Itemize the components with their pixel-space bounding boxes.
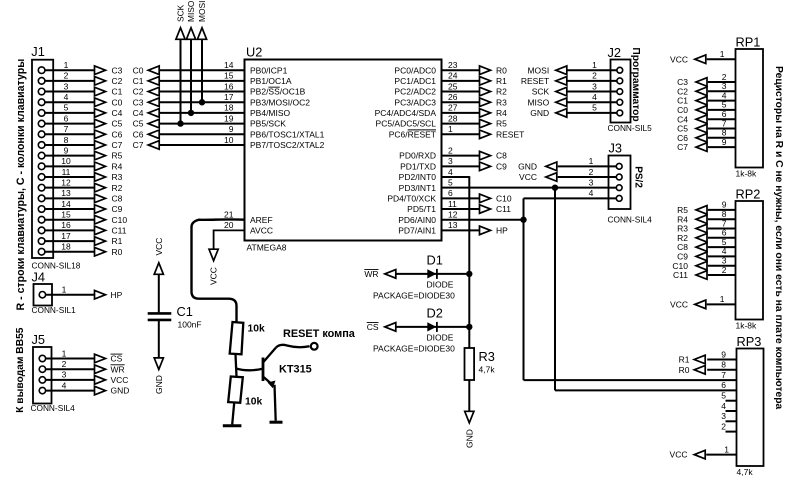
svg-text:C11: C11 — [673, 270, 688, 280]
port C2 (to U2) — [133, 87, 160, 97]
svg-text:7: 7 — [64, 124, 69, 134]
svg-text:C1: C1 — [133, 76, 144, 86]
power VCC (RP3 pin 1) — [670, 450, 706, 460]
svg-text:25: 25 — [448, 81, 458, 91]
wire U2 left row C3 — [159, 101, 244, 103]
J5 pin 2 — [39, 359, 94, 372]
port C10 (J1 pin 15) — [95, 215, 128, 225]
J2 pin 2 — [567, 71, 623, 84]
port C7 (to U2) — [133, 140, 160, 150]
J1 pin 13 — [38, 188, 94, 202]
svg-text:12: 12 — [61, 177, 71, 187]
wire lower 10k to ground — [232, 403, 234, 425]
wire U2 right row to C8 — [442, 155, 480, 157]
svg-text:ATMEGA8: ATMEGA8 — [247, 243, 287, 253]
svg-text:1: 1 — [720, 49, 725, 59]
RP3 pin 3 stub — [721, 411, 736, 421]
svg-text:C9: C9 — [496, 161, 507, 171]
svg-text:R0: R0 — [679, 365, 690, 375]
svg-text:PD0/RXD: PD0/RXD — [399, 151, 436, 161]
J2 pin 3 — [567, 81, 623, 94]
port C5 (to U2) — [133, 119, 160, 129]
svg-text:17: 17 — [61, 231, 71, 241]
svg-text:MISO: MISO — [527, 97, 549, 107]
RP2 pin 8 — [708, 209, 736, 219]
resistor pack RP3 — [737, 334, 764, 477]
port R1 (J1 pin 17) — [95, 236, 123, 246]
svg-text:PC5/ADC5/SCL: PC5/ADC5/SCL — [376, 119, 437, 129]
RP3 pin 4 stub — [721, 401, 736, 411]
node PD3/J3.3 junction — [552, 184, 558, 190]
RP3 pin 1 (VCC) — [706, 444, 736, 454]
RP3 pin 9 — [707, 349, 736, 359]
svg-text:1k-8k: 1k-8k — [736, 169, 758, 179]
svg-text:VCC: VCC — [154, 238, 164, 256]
port GND (J5 pin 4) — [95, 386, 130, 396]
wire U2 left row C5 — [159, 123, 244, 125]
svg-text:C7: C7 — [677, 142, 688, 152]
svg-text:MOSI: MOSI — [197, 1, 207, 22]
svg-text:C2: C2 — [133, 87, 144, 97]
svg-text:GND: GND — [518, 161, 537, 171]
port RESET (from U2) — [480, 129, 525, 139]
svg-text:C10: C10 — [496, 193, 512, 203]
svg-text:18: 18 — [61, 242, 71, 252]
port C3 (RP1 pin 2) — [677, 77, 707, 87]
port R1 (RP3 pin 9) — [679, 355, 706, 365]
resistor pack RP1 — [736, 35, 764, 179]
port C7 (RP1 pin 9) — [677, 142, 707, 152]
svg-text:J2: J2 — [608, 45, 622, 60]
svg-text:VCC: VCC — [209, 267, 219, 285]
svg-text:8: 8 — [64, 135, 69, 145]
svg-text:C0: C0 — [133, 65, 144, 75]
wire U2 pin 5 to J3 pin 3 — [442, 187, 609, 189]
svg-text:PB1/OC1A: PB1/OC1A — [250, 76, 292, 86]
svg-text:C10: C10 — [112, 215, 128, 225]
J1 pin 3 — [38, 81, 94, 94]
svg-text:R3: R3 — [496, 97, 507, 107]
svg-text:17: 17 — [224, 92, 234, 102]
svg-text:GND: GND — [464, 429, 474, 448]
J2 pin 4 — [567, 92, 623, 105]
J3 pin 2 — [558, 167, 622, 180]
svg-text:CONN-SIL4: CONN-SIL4 — [608, 215, 653, 225]
diode D2 — [373, 306, 469, 354]
power VCC (RP1 pin 1) — [670, 54, 706, 64]
svg-text:PB7/TOSC2/XTAL2: PB7/TOSC2/XTAL2 — [250, 140, 325, 150]
port C11 (from U2) — [480, 204, 512, 214]
J1 pin 4 — [38, 92, 94, 105]
svg-text:PB4/MISO: PB4/MISO — [250, 108, 291, 118]
J1 pin 2 — [38, 71, 94, 84]
svg-text:CONN-SIL4: CONN-SIL4 — [31, 403, 76, 413]
port VCC (J5 pin 3) — [95, 375, 129, 385]
wire U2 right row to R2 — [442, 91, 480, 93]
wire U2 right row to HP — [442, 229, 480, 231]
J5 pin 4 — [39, 380, 94, 393]
J5 pin 3 — [39, 370, 94, 383]
RP1 pin 4 — [708, 90, 736, 100]
svg-text:21: 21 — [224, 210, 234, 220]
svg-text:15: 15 — [224, 71, 234, 81]
svg-text:PC3/ADC3: PC3/ADC3 — [394, 97, 436, 107]
svg-text:C4: C4 — [133, 108, 144, 118]
J1 pin 8 — [38, 135, 94, 149]
capacitor C1 — [148, 304, 202, 330]
J1 pin 10 — [38, 156, 94, 170]
svg-text:C11: C11 — [496, 204, 511, 214]
connector J2 — [608, 45, 653, 133]
svg-text:3: 3 — [592, 81, 597, 91]
svg-text:GND: GND — [530, 108, 549, 118]
svg-text:DIODE: DIODE — [427, 280, 454, 290]
port C5 (J1 pin 6) — [95, 119, 123, 129]
svg-text:PD1/TXD: PD1/TXD — [400, 161, 436, 171]
wire U2 right row to C9 — [442, 165, 480, 167]
wire U2 right row to R5 — [442, 123, 480, 125]
svg-text:PACKAGE=DIODE30: PACKAGE=DIODE30 — [373, 290, 455, 300]
svg-text:4: 4 — [721, 401, 726, 411]
J1 pin 6 — [38, 113, 94, 126]
port C6 (RP1 pin 8) — [677, 133, 707, 143]
svg-text:4: 4 — [592, 92, 597, 102]
svg-text:C4: C4 — [112, 108, 123, 118]
J1 pin 18 — [38, 242, 94, 256]
J5 pin 1 — [39, 348, 94, 361]
svg-text:PD6/AIN0: PD6/AIN0 — [398, 215, 436, 225]
wire MISO vertical stub — [190, 39, 192, 113]
wire U2 left row C2 — [159, 91, 244, 93]
svg-text:10: 10 — [61, 156, 71, 166]
port C11 (RP2 pin 2) — [673, 270, 707, 280]
svg-text:R3: R3 — [112, 172, 123, 182]
svg-text:2: 2 — [589, 167, 594, 177]
diode D1 — [373, 253, 469, 301]
port CS (to D2) — [367, 322, 396, 332]
svg-text:RP1: RP1 — [736, 35, 761, 50]
port C11 (J1 pin 16) — [95, 226, 127, 236]
power VCC (AVCC) — [209, 249, 219, 285]
svg-text:PB0/ICP1: PB0/ICP1 — [250, 65, 288, 75]
power VCC (RP2 pin 1) — [670, 300, 706, 310]
port C4 (RP1 pin 6) — [677, 114, 707, 124]
svg-text:D2: D2 — [427, 306, 443, 321]
port C1 (RP1 pin 4) — [677, 96, 707, 106]
svg-text:14: 14 — [61, 199, 71, 209]
svg-text:PD5/T1: PD5/T1 — [407, 204, 436, 214]
svg-text:WR: WR — [111, 364, 125, 374]
J1 pin 1 — [38, 60, 94, 73]
wire U2 left row C7 — [159, 144, 244, 146]
svg-text:8: 8 — [721, 360, 726, 370]
J1 pin 9 — [38, 145, 94, 159]
svg-text:C5: C5 — [133, 119, 144, 129]
port MOSI (up arrow) — [197, 1, 207, 40]
wire AREF to resistor divider (hand-drawn) — [192, 219, 245, 322]
svg-text:GND: GND — [111, 386, 130, 396]
connector J5 — [31, 332, 76, 413]
svg-text:PB5/SCK: PB5/SCK — [250, 119, 286, 129]
port C2 (RP1 pin 3) — [677, 86, 707, 96]
RP1 pin 5 — [708, 100, 736, 110]
J1 pin 15 — [38, 210, 94, 224]
svg-text:C6: C6 — [112, 129, 123, 139]
port GND (J3 pin 1) — [518, 161, 557, 171]
port C9 (from U2) — [480, 161, 508, 171]
port VCC (J3 pin 2) — [519, 172, 557, 182]
svg-text:C9: C9 — [112, 204, 123, 214]
op-amp U2 (ATMEGA8 MCU) body — [245, 45, 442, 253]
svg-text:23: 23 — [448, 60, 458, 70]
svg-text:4: 4 — [589, 188, 594, 198]
wire SCK vertical stub — [180, 39, 182, 124]
svg-text:CS: CS — [367, 322, 379, 332]
port HP (J4) — [95, 290, 123, 300]
connector J1 — [31, 44, 53, 258]
svg-text:J1: J1 — [31, 44, 45, 59]
svg-text:9: 9 — [722, 137, 727, 147]
port R4 (J1 pin 10) — [95, 161, 123, 171]
svg-text:9: 9 — [64, 145, 69, 155]
J2 pin 5 — [567, 103, 623, 116]
J3 pin 3 — [589, 177, 622, 190]
port R4 (RP2 pin 8) — [677, 214, 707, 224]
J3 pin 4 — [589, 188, 622, 201]
svg-text:Программатор: Программатор — [630, 47, 641, 121]
wire U2 pin 12 stub — [442, 219, 524, 221]
port C6 (to U2) — [133, 129, 160, 139]
svg-text:5: 5 — [721, 391, 726, 401]
RP3 pin 8 — [707, 360, 736, 370]
port HP (from U2) — [480, 226, 509, 236]
RP1 pin 8 — [708, 128, 736, 138]
svg-text:PS/2: PS/2 — [633, 166, 644, 188]
ground (C1 bottom) — [154, 358, 164, 394]
svg-text:2: 2 — [592, 71, 597, 81]
port GND (J2 pin 5) — [530, 108, 566, 118]
RP1 pin 3 — [708, 81, 736, 91]
RP2 pin 2 — [708, 265, 736, 275]
svg-text:VCC: VCC — [670, 54, 688, 64]
svg-text:J3: J3 — [609, 141, 623, 156]
port MISO (J2 pin 4) — [527, 97, 566, 107]
svg-text:13: 13 — [448, 220, 458, 230]
wire upper 10k to lower 10k — [236, 354, 237, 376]
node RESET pad (to computer) — [311, 343, 318, 350]
svg-text:C6: C6 — [133, 129, 144, 139]
port C4 (J1 pin 5) — [95, 108, 123, 118]
svg-text:PD2/INT0: PD2/INT0 — [399, 172, 437, 182]
RP3 pin 2 stub — [721, 421, 736, 431]
svg-text:1: 1 — [62, 285, 67, 295]
resistor 10k (lower, hand-drawn) — [228, 377, 262, 408]
svg-text:PB3/MOSI/OC2: PB3/MOSI/OC2 — [250, 97, 310, 107]
port R3 (J1 pin 11) — [95, 172, 123, 182]
J1 pin 12 — [38, 177, 94, 191]
svg-text:1: 1 — [724, 444, 729, 454]
RP3 pin 5 stub — [721, 391, 736, 401]
svg-text:5: 5 — [448, 177, 453, 187]
wire net PD3 to RP3 pin 6 — [555, 389, 737, 391]
node MISO junction — [188, 110, 194, 116]
svg-text:PC1/ADC1: PC1/ADC1 — [394, 76, 436, 86]
RP2 pin 6 — [708, 228, 736, 238]
svg-text:HP: HP — [111, 290, 123, 300]
svg-text:27: 27 — [448, 103, 458, 113]
svg-text:C3: C3 — [112, 65, 123, 75]
svg-text:PACKAGE=DIODE30: PACKAGE=DIODE30 — [373, 343, 455, 353]
svg-text:MOSI: MOSI — [527, 65, 549, 75]
port C2 (J1 pin 2) — [95, 76, 123, 86]
port MOSI (J2 pin 1) — [527, 65, 566, 75]
wire U2 right row to C10 — [442, 197, 480, 199]
node PD6/J3.4 junction — [520, 217, 526, 223]
node D2 junction — [466, 324, 472, 330]
RP1 pin 9 — [708, 137, 736, 147]
port C0 (J1 pin 4) — [95, 97, 123, 107]
svg-text:RP3: RP3 — [737, 334, 762, 349]
svg-text:RP2: RP2 — [736, 187, 761, 202]
svg-text:R4: R4 — [496, 108, 507, 118]
ground (emitter) — [270, 421, 283, 424]
port C8 (from U2) — [480, 151, 508, 161]
port R5 (RP2 pin 9) — [677, 205, 707, 215]
svg-text:9: 9 — [229, 124, 234, 134]
svg-text:PB6/TOSC1/XTAL1: PB6/TOSC1/XTAL1 — [250, 129, 325, 139]
svg-text:C8: C8 — [496, 151, 507, 161]
ground (below R3) — [464, 411, 474, 448]
J1 pin 7 — [38, 124, 94, 138]
port R5 (from U2) — [480, 119, 508, 129]
svg-text:KT315: KT315 — [279, 364, 312, 376]
RP2 pin 1 (VCC) — [707, 294, 736, 304]
svg-text:VCC: VCC — [670, 300, 688, 310]
port R2 (RP2 pin 6) — [677, 233, 707, 243]
svg-text:PC6/RESET: PC6/RESET — [389, 129, 436, 139]
svg-text:100nF: 100nF — [178, 320, 202, 330]
svg-text:15: 15 — [61, 210, 71, 220]
svg-text:К выводам ВВ55: К выводам ВВ55 — [15, 327, 26, 413]
svg-text:5: 5 — [64, 103, 69, 113]
wire U2 left row C4 — [159, 112, 244, 114]
wire U2 pin 4 net (PD2/INT0 vertical) — [442, 176, 470, 178]
svg-text:3: 3 — [721, 411, 726, 421]
node D1 junction — [466, 271, 472, 277]
port CS (J5 pin 1) — [95, 354, 123, 364]
svg-text:2: 2 — [64, 71, 69, 81]
svg-text:VCC: VCC — [670, 450, 688, 460]
svg-text:CS: CS — [111, 354, 123, 364]
svg-text:10: 10 — [224, 135, 234, 145]
svg-text:SCK: SCK — [532, 87, 550, 97]
svg-text:1: 1 — [448, 124, 453, 134]
svg-text:CONN-SIL5: CONN-SIL5 — [608, 123, 653, 133]
svg-text:C3: C3 — [133, 97, 144, 107]
wire U2 right row to R3 — [442, 101, 480, 103]
svg-text:2: 2 — [721, 421, 726, 431]
port R0 (J1 pin 18) — [95, 247, 123, 257]
svg-text:6: 6 — [448, 188, 453, 198]
svg-text:6: 6 — [64, 113, 69, 123]
port C10 (from U2) — [480, 193, 512, 203]
wire net PD3 vertical — [554, 188, 556, 391]
port WR (J5 pin 2) — [95, 364, 125, 374]
svg-text:C7: C7 — [133, 140, 144, 150]
port C0 (to U2) — [133, 65, 160, 75]
node MOSI junction — [199, 99, 205, 105]
wire R3 to ground — [468, 380, 470, 411]
svg-text:R - строки клавиатуры, С - кол: R - строки клавиатуры, С - колонки клави… — [15, 59, 27, 311]
port R0 (RP3 pin 8) — [679, 365, 706, 375]
wire U2 left row C1 — [159, 80, 244, 82]
svg-text:PB2/SS/OC1B: PB2/SS/OC1B — [250, 87, 306, 97]
svg-text:R3: R3 — [479, 349, 495, 364]
port R2 (from U2) — [480, 87, 508, 97]
port C7 (J1 pin 8) — [95, 140, 123, 150]
wire emitter to ground — [275, 385, 276, 421]
svg-text:2: 2 — [722, 265, 727, 275]
wire J3 pin 4 horizontal — [524, 197, 609, 199]
J1 pin 5 — [38, 103, 94, 116]
svg-text:C0: C0 — [112, 97, 123, 107]
svg-text:10k: 10k — [248, 324, 265, 335]
svg-text:2: 2 — [448, 145, 453, 155]
wire base (to transistor) — [236, 369, 263, 371]
svg-text:1: 1 — [720, 294, 725, 304]
svg-text:U2: U2 — [246, 45, 262, 60]
svg-text:C1: C1 — [112, 87, 123, 97]
port R3 (from U2) — [480, 97, 508, 107]
svg-text:SCK: SCK — [176, 4, 186, 22]
svg-text:PC2/ADC2: PC2/ADC2 — [394, 87, 436, 97]
RP2 pin 9 — [708, 200, 736, 210]
port R0 (from U2) — [480, 65, 508, 75]
wire net PD6 to RP3 pin 7 — [524, 379, 737, 381]
transistor Q1 KT315 — [263, 348, 312, 389]
svg-text:R0: R0 — [496, 65, 507, 75]
wire MOSI vertical stub — [201, 39, 203, 102]
svg-text:D1: D1 — [427, 253, 443, 268]
wire collector to RESET pad — [276, 345, 310, 348]
svg-text:1: 1 — [589, 156, 594, 166]
svg-text:4: 4 — [62, 380, 67, 390]
J1 pin 16 — [38, 220, 94, 234]
svg-text:R1: R1 — [112, 236, 123, 246]
J2 pin 1 — [567, 60, 623, 73]
svg-text:AVCC: AVCC — [250, 226, 273, 236]
svg-text:R4: R4 — [112, 161, 123, 171]
svg-text:13: 13 — [61, 188, 71, 198]
svg-text:3: 3 — [64, 81, 69, 91]
port C8 (RP2 pin 5) — [677, 242, 707, 252]
wire AVCC stub — [214, 230, 245, 250]
resistor pack RP2 — [736, 187, 764, 331]
port C4 (to U2) — [133, 108, 160, 118]
svg-text:RESET компа: RESET компа — [283, 328, 356, 340]
RP2 pin 3 — [708, 256, 736, 266]
svg-text:16: 16 — [224, 81, 234, 91]
svg-text:WR: WR — [364, 269, 378, 279]
wire U2 right row to R1 — [442, 80, 480, 82]
svg-text:VCC: VCC — [111, 375, 129, 385]
port WR (to D1) — [364, 269, 395, 279]
port C0 (RP1 pin 5) — [677, 105, 707, 115]
port R1 (from U2) — [480, 76, 508, 86]
RP1 pin 2 — [708, 72, 736, 82]
svg-text:24: 24 — [448, 71, 458, 81]
port C9 (RP2 pin 4) — [677, 252, 707, 262]
